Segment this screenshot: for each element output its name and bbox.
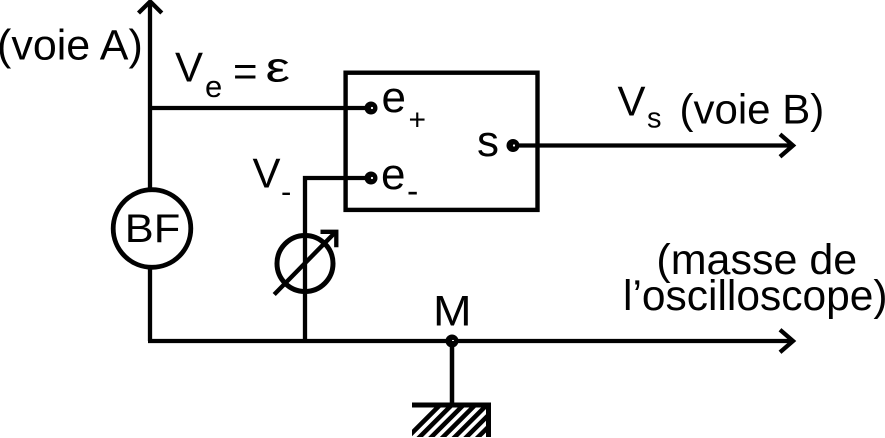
svg-text:V: V	[175, 44, 203, 91]
generator BF	[113, 190, 191, 268]
wire: bottom horizontal (masse) with right arrow	[148, 339, 793, 343]
op-amp box U1	[346, 73, 538, 210]
svg-text:e: e	[382, 73, 406, 122]
wire: left vertical (voie A) with up arrow	[148, 4, 152, 341]
svg-text:e: e	[205, 69, 222, 104]
node M junction dot	[446, 335, 459, 348]
node s terminal dot	[507, 139, 520, 152]
svg-text:-: -	[281, 174, 291, 209]
ground symbol	[412, 403, 491, 408]
svg-text:V: V	[253, 149, 281, 196]
svg-text:+: +	[409, 104, 427, 137]
svg-text:l’oscilloscope): l’oscilloscope)	[623, 273, 885, 320]
svg-text:e: e	[381, 150, 405, 199]
svg-text:(voie A): (voie A)	[0, 22, 143, 70]
svg-text:s: s	[647, 102, 662, 134]
svg-text:s: s	[477, 117, 499, 166]
potentiometer P1	[277, 236, 333, 292]
svg-text:M: M	[433, 289, 472, 336]
wire: V- bend down to bottom wire	[305, 178, 371, 341]
node e- terminal dot	[365, 172, 378, 185]
svg-text:-: -	[407, 173, 418, 211]
wire: output s to right arrow	[513, 143, 793, 147]
svg-text:V: V	[618, 78, 646, 125]
node e+ terminal dot	[365, 102, 378, 115]
wire: Ve horizontal to e+	[150, 106, 371, 110]
wire: ground stem	[450, 341, 455, 404]
svg-text:BF: BF	[125, 207, 181, 251]
svg-text:ε: ε	[266, 44, 291, 91]
svg-text:=: =	[233, 48, 258, 95]
svg-text:(voie B): (voie B)	[680, 85, 825, 132]
